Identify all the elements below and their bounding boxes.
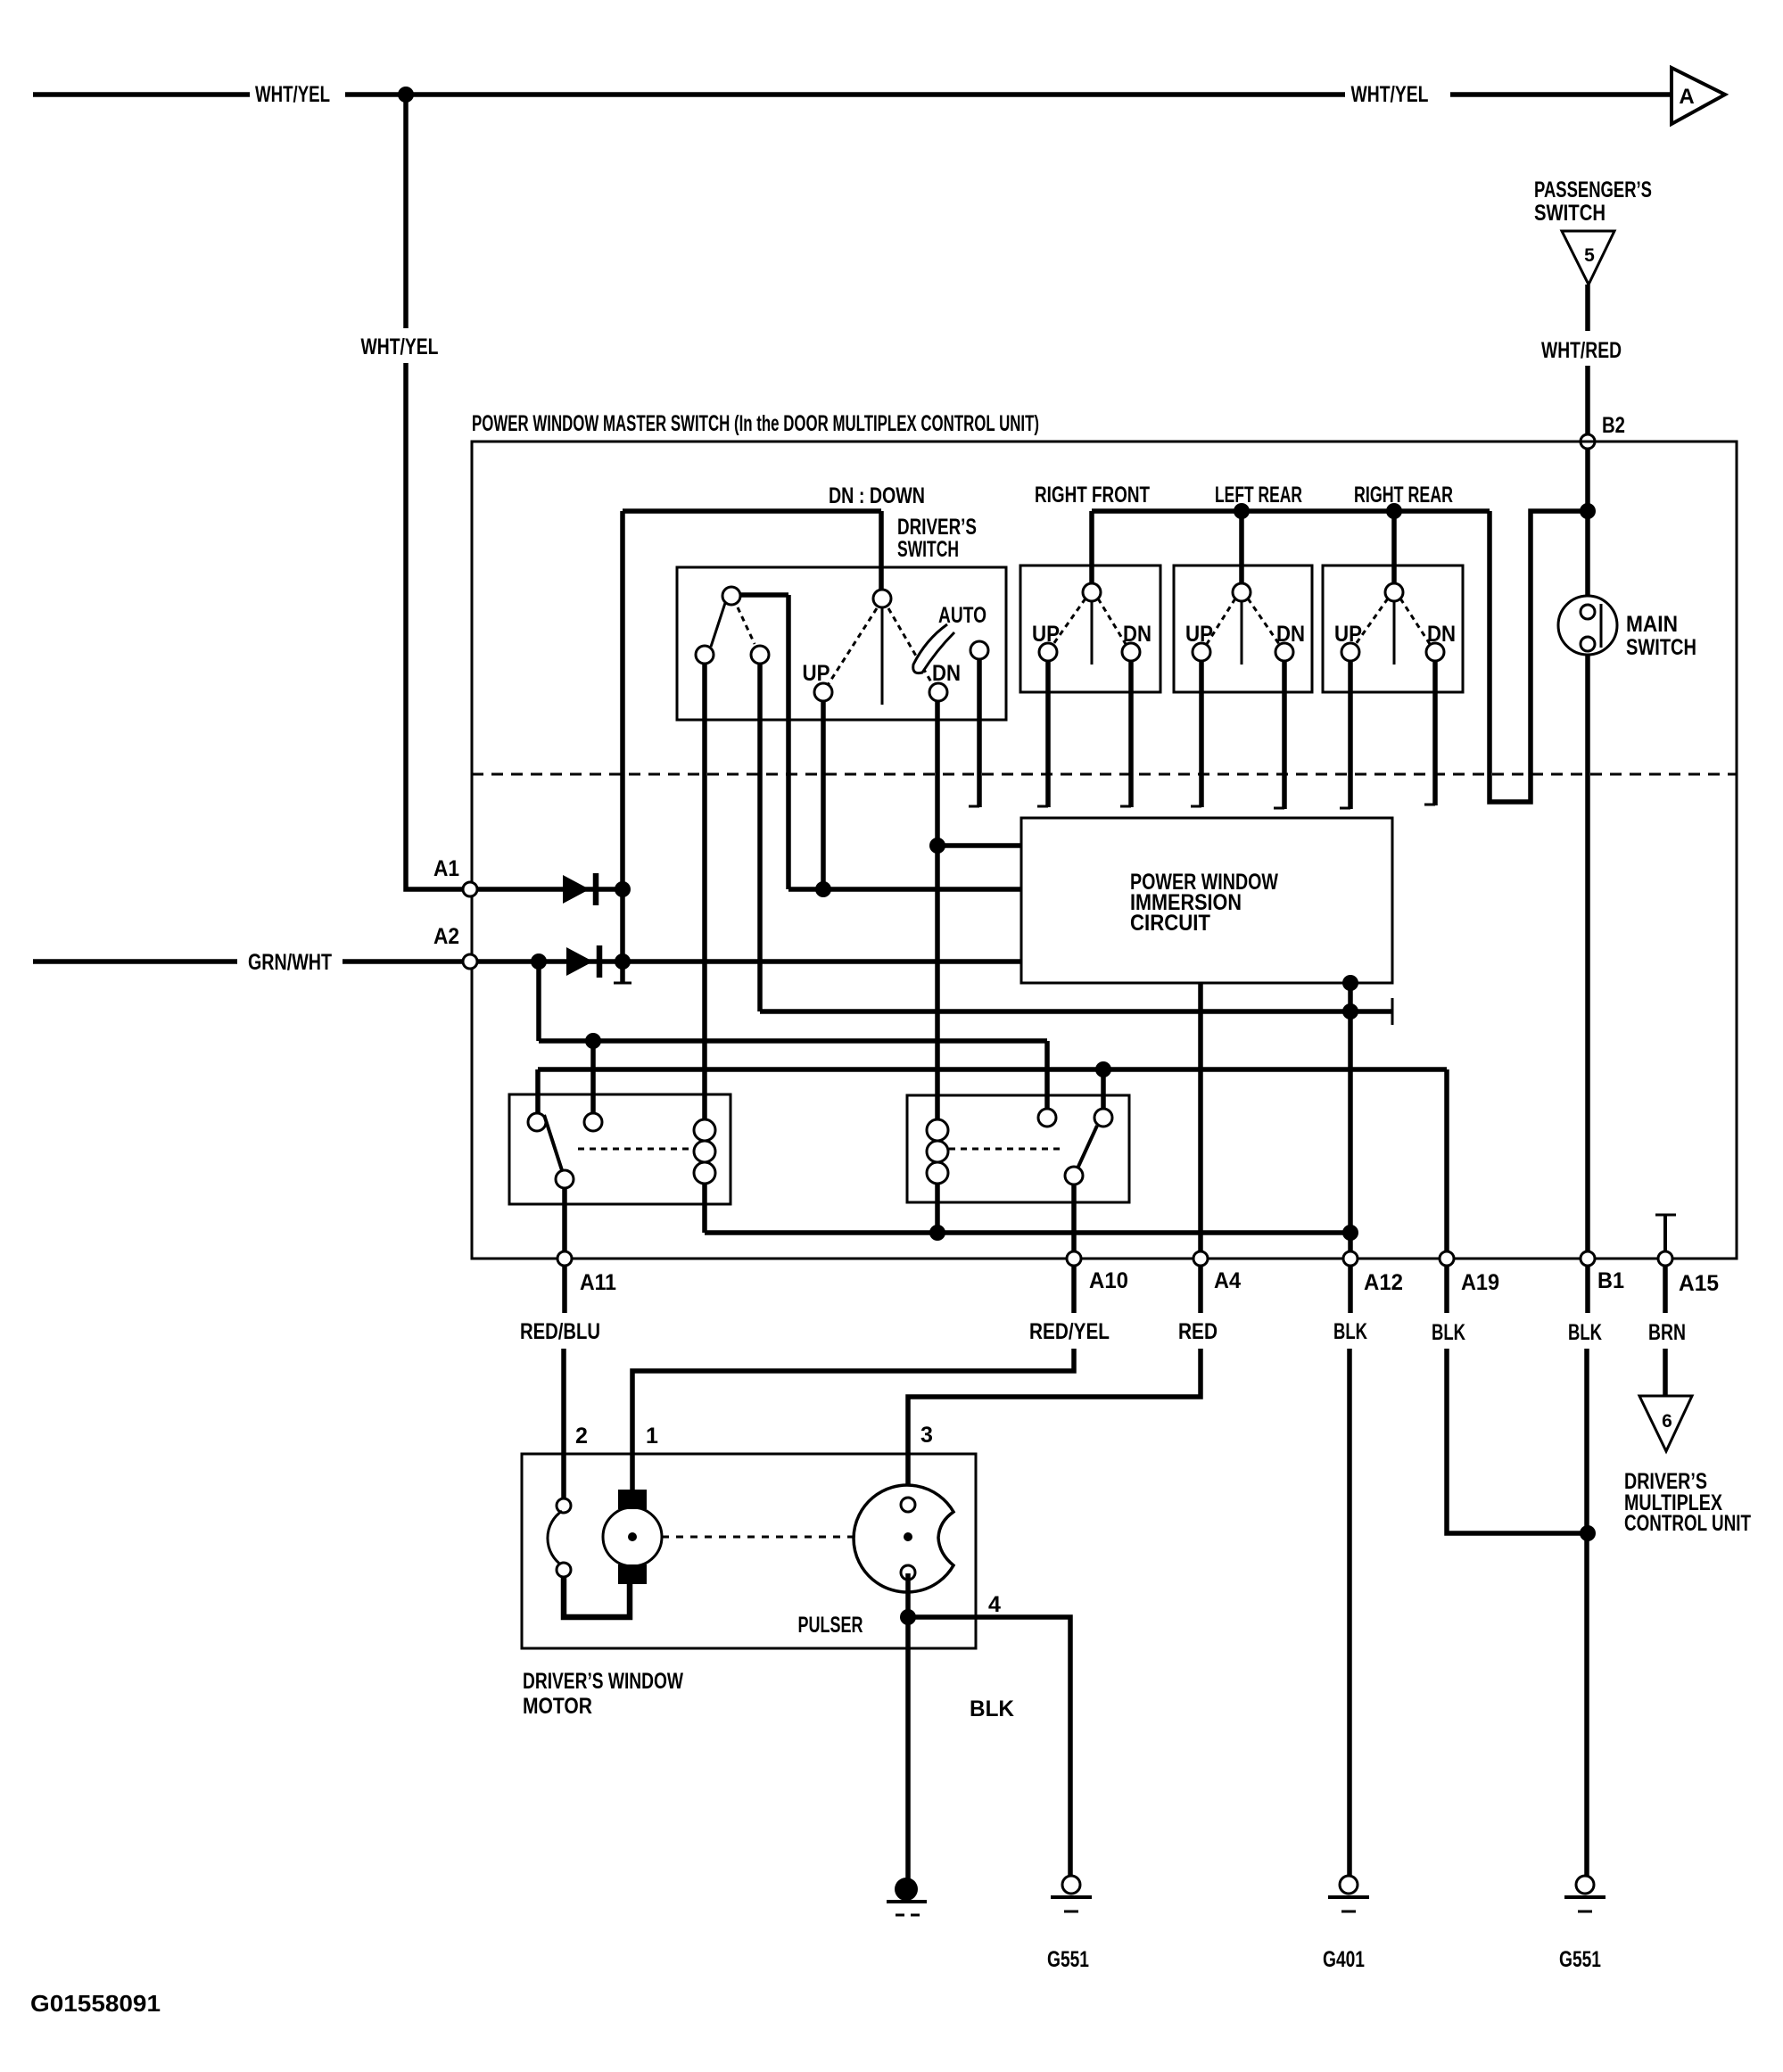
connector A15 xyxy=(1658,1251,1672,1266)
contact UP right rear xyxy=(1341,643,1359,661)
wire A4 RED tail xyxy=(908,1267,1201,1502)
wire B2 to main switch xyxy=(1585,449,1590,597)
wire bus dip below boundary xyxy=(1490,511,1588,802)
svg-text:1: 1 xyxy=(646,1424,658,1449)
svg-text:3: 3 xyxy=(920,1423,933,1448)
junction A12 top xyxy=(1342,975,1358,991)
wire A15 BRN tail xyxy=(1663,1267,1668,1396)
svg-text:UP: UP xyxy=(803,661,830,686)
pulser bottom terminal xyxy=(901,1565,915,1580)
connector A1 xyxy=(463,882,477,896)
label DRIVER'S MULTIPLEX CONTROL UNIT xyxy=(1624,1469,1751,1536)
box driver's switch xyxy=(677,567,1006,720)
wire WHT/YEL vertical drop xyxy=(406,95,463,889)
wire right front feed drop xyxy=(1089,511,1094,585)
wire UP right front drop xyxy=(1045,661,1051,807)
contact DN right front xyxy=(1122,643,1140,661)
svg-text:DN : DOWN: DN : DOWN xyxy=(829,483,925,508)
svg-text:MAIN: MAIN xyxy=(1626,612,1678,637)
svg-text:WHT/YEL: WHT/YEL xyxy=(255,82,330,107)
svg-text:PULSER: PULSER xyxy=(798,1613,863,1638)
dashed left rear throws xyxy=(1207,598,1279,644)
pulser center dot xyxy=(904,1532,912,1541)
svg-text:CIRCUIT: CIRCUIT xyxy=(1130,911,1210,936)
contact DN right rear xyxy=(1426,643,1444,661)
diode D1 xyxy=(563,873,596,905)
main switch top terminal xyxy=(1581,605,1595,619)
relay2 NO contact xyxy=(1094,1109,1112,1127)
dashed K1-K3 throw xyxy=(738,607,755,644)
relay1 dashed link xyxy=(578,1148,689,1151)
svg-text:BRN: BRN xyxy=(1648,1320,1686,1345)
ground G551 xyxy=(1051,1876,1092,1911)
dashed right front throws xyxy=(1053,598,1126,644)
svg-text:G551: G551 xyxy=(1559,1947,1601,1972)
box relay 2 xyxy=(907,1095,1129,1202)
hook UP left rear xyxy=(1191,805,1201,808)
ground G401 xyxy=(1328,1876,1369,1911)
svg-text:SWITCH: SWITCH xyxy=(897,537,959,562)
svg-text:2: 2 xyxy=(575,1424,588,1449)
svg-text:RED/YEL: RED/YEL xyxy=(1029,1319,1110,1344)
svg-text:BLK: BLK xyxy=(1333,1319,1367,1344)
wire relay1 pole drop xyxy=(535,1069,541,1113)
svg-text:SWITCH: SWITCH xyxy=(1626,635,1696,660)
connector A19 xyxy=(1440,1251,1454,1266)
wire right rear feed drop xyxy=(1391,511,1397,585)
wire DN:DOWN bus horizontal xyxy=(623,508,881,514)
main switch bottom terminal xyxy=(1581,637,1595,651)
wire K3 row to A12 column xyxy=(760,1009,1392,1014)
wire UP right rear drop xyxy=(1348,661,1353,809)
wire UP drop xyxy=(821,701,826,889)
wire pivot drop xyxy=(879,511,884,591)
wire immersion out A12 xyxy=(1348,983,1353,1251)
main switch blade xyxy=(1600,604,1603,648)
wire row to relay2 NC xyxy=(539,1038,1047,1044)
contact right front common xyxy=(1083,583,1101,601)
contact K4 driver xyxy=(970,641,988,659)
wire DN bus vertical xyxy=(620,511,625,984)
wire relay1 coil bottom xyxy=(702,1184,707,1233)
wire A2 diode row xyxy=(478,959,1021,964)
svg-text:WHT/YEL: WHT/YEL xyxy=(361,334,439,359)
svg-text:DRIVER’S: DRIVER’S xyxy=(897,515,977,540)
contact K1 driver lock xyxy=(722,587,740,605)
label DRIVER'S SWITCH xyxy=(897,515,977,562)
svg-text:G401: G401 xyxy=(1323,1947,1365,1972)
contact left rear common xyxy=(1233,583,1251,601)
hook K4 end xyxy=(969,805,979,808)
svg-text:G551: G551 xyxy=(1047,1947,1089,1972)
relay2 dashed link xyxy=(949,1148,1060,1151)
svg-text:POWER WINDOW MASTER SWITCH (In: POWER WINDOW MASTER SWITCH (In the DOOR … xyxy=(472,411,1039,436)
svg-text:RED/BLU: RED/BLU xyxy=(520,1319,600,1344)
diode D2 xyxy=(566,945,599,978)
wire A1 diode row xyxy=(478,887,623,892)
motor top brush xyxy=(618,1490,647,1509)
pivot stem xyxy=(881,607,884,705)
box relay 1 xyxy=(509,1094,731,1204)
wire pulser ground xyxy=(905,1573,911,1880)
junction bus to B2 xyxy=(1580,503,1596,519)
contact K2 xyxy=(696,646,714,664)
contact K3 xyxy=(751,646,769,664)
motor breaker top terminal xyxy=(557,1498,571,1513)
connector B2 xyxy=(1581,434,1595,449)
label DRIVER'S WINDOW MOTOR xyxy=(523,1669,683,1719)
svg-text:LEFT REAR: LEFT REAR xyxy=(1215,483,1302,508)
svg-text:B2: B2 xyxy=(1602,413,1625,438)
wire WHT/RED xyxy=(1585,285,1590,433)
relay1 common contact xyxy=(556,1170,574,1188)
hook UP right rear xyxy=(1340,807,1350,810)
relay1 lever xyxy=(544,1115,562,1170)
svg-text:PASSENGER’S: PASSENGER’S xyxy=(1534,177,1652,202)
contact right rear common xyxy=(1385,583,1403,601)
box driver's window motor xyxy=(522,1454,976,1648)
wire DN row to immersion box xyxy=(937,843,1021,848)
wire GRN/WHT feed xyxy=(33,959,462,964)
svg-text:A: A xyxy=(1679,85,1694,109)
motor breaker bottom terminal xyxy=(557,1563,571,1577)
svg-text:WHT/RED: WHT/RED xyxy=(1541,338,1622,363)
relay2 lever xyxy=(1077,1126,1097,1168)
switch box right front xyxy=(1020,565,1160,692)
contact UP right front xyxy=(1039,643,1057,661)
wire K3 drop xyxy=(757,664,763,1011)
wire A2 branch down xyxy=(536,962,541,1041)
junction relay2 coil bottom xyxy=(929,1225,945,1241)
wire left rear feed drop xyxy=(1239,511,1244,585)
motor center dot xyxy=(628,1532,637,1541)
wire K4 drop dead end xyxy=(977,659,982,807)
label POWER WINDOW IMMERSION CIRCUIT xyxy=(1130,870,1278,936)
pivot driver switch xyxy=(873,590,891,607)
hook DN right rear xyxy=(1424,804,1435,806)
connector arrow A xyxy=(1672,68,1725,124)
svg-text:DRIVER’S WINDOW: DRIVER’S WINDOW xyxy=(523,1669,683,1694)
label PASSENGER'S SWITCH xyxy=(1534,177,1652,226)
junction UP row xyxy=(815,881,831,897)
svg-text:4: 4 xyxy=(988,1592,1001,1617)
motor breaker arc xyxy=(548,1511,562,1565)
svg-text:AUTO: AUTO xyxy=(938,603,986,628)
svg-text:GRN/WHT: GRN/WHT xyxy=(248,950,332,975)
wire switch bus xyxy=(1092,508,1490,514)
wire relay1 common to A11 xyxy=(562,1188,567,1251)
svg-text:RED: RED xyxy=(1178,1319,1218,1344)
pulser disc xyxy=(854,1485,953,1592)
connector A2 xyxy=(463,954,477,969)
wire coil ground row xyxy=(705,1230,1350,1235)
wire B1 BLK tail xyxy=(1587,1267,1588,1878)
junction pulser ground branch xyxy=(900,1609,916,1625)
svg-text:A15: A15 xyxy=(1679,1271,1719,1296)
stub end right of immersion box xyxy=(1391,998,1394,1025)
wire relay2 NO drop xyxy=(1101,1069,1106,1110)
contact DN left rear xyxy=(1275,643,1293,661)
stem right front xyxy=(1091,601,1094,665)
svg-text:B1: B1 xyxy=(1597,1268,1624,1293)
svg-text:A12: A12 xyxy=(1364,1270,1403,1295)
svg-text:CONTROL UNIT: CONTROL UNIT xyxy=(1624,1511,1751,1536)
box POWER WINDOW MASTER SWITCH xyxy=(472,442,1737,1259)
dashed motor shaft xyxy=(662,1536,888,1539)
relay1 coil xyxy=(694,1119,715,1184)
ground solid (motor) xyxy=(887,1878,927,1915)
wire relay2 NC drop xyxy=(1044,1041,1050,1110)
wire DN right rear drop xyxy=(1432,661,1438,805)
svg-text:BLK: BLK xyxy=(970,1696,1014,1721)
wire relay1 NC drop xyxy=(590,1041,596,1113)
wire relay2 common to A10 xyxy=(1071,1185,1077,1251)
svg-text:6: 6 xyxy=(1662,1411,1672,1432)
junction WHT/YEL tap xyxy=(398,87,414,103)
switch box right rear xyxy=(1323,565,1463,692)
junction A19 B1 xyxy=(1580,1525,1596,1541)
svg-text:A10: A10 xyxy=(1089,1268,1128,1293)
relay2 coil xyxy=(927,1119,948,1184)
svg-text:A11: A11 xyxy=(580,1270,616,1295)
junction A12 coil row xyxy=(1342,1225,1358,1241)
wire K1 to drop xyxy=(740,592,788,598)
junction A2 branch xyxy=(531,953,547,970)
wire breaker to motor xyxy=(564,1577,630,1617)
junction relay2 NO xyxy=(1095,1061,1111,1077)
svg-text:G01558091: G01558091 xyxy=(30,1990,161,2017)
relay2 NC contact xyxy=(1038,1109,1056,1127)
contact UP left rear xyxy=(1193,643,1210,661)
wire A19 drop xyxy=(1444,1069,1449,1251)
wire K2 drop xyxy=(702,664,707,1120)
hook DN left rear xyxy=(1274,807,1284,810)
junction A12 K3 row xyxy=(1342,1003,1358,1019)
lever driver lock switch xyxy=(711,603,725,647)
motor bottom brush xyxy=(618,1564,647,1584)
wire immersion out A4 xyxy=(1198,983,1203,1251)
main switch circle xyxy=(1558,596,1617,655)
junction bus right rear xyxy=(1386,503,1402,519)
wire A19 BLK tail xyxy=(1447,1267,1588,1533)
boundary dashed line xyxy=(472,773,1737,776)
wire DN left rear drop xyxy=(1282,661,1287,809)
wire DN drop to relay2 coil xyxy=(935,701,940,1120)
svg-text:BLK: BLK xyxy=(1432,1320,1465,1345)
junction row to relay1 NC xyxy=(585,1033,601,1049)
connector triangle 5 xyxy=(1562,231,1614,285)
contact DN driver xyxy=(929,683,947,701)
stub end below A2 row xyxy=(614,982,631,985)
wire K1 drop vertical xyxy=(786,595,791,889)
wire DN right front drop xyxy=(1128,661,1134,807)
junction bus left rear xyxy=(1234,503,1250,519)
connector A4 xyxy=(1193,1251,1208,1266)
pulser top terminal xyxy=(901,1498,915,1512)
svg-text:MOTOR: MOTOR xyxy=(523,1694,592,1719)
connector triangle 6 xyxy=(1639,1396,1692,1451)
box power window immersion circuit xyxy=(1021,818,1392,983)
connector A12 xyxy=(1343,1251,1358,1266)
ground G551 xyxy=(1564,1876,1606,1911)
wire pin4 branch xyxy=(908,1617,1070,1878)
label MAIN SWITCH xyxy=(1626,612,1696,660)
svg-text:WHT/YEL: WHT/YEL xyxy=(1351,82,1429,107)
relay1 NC contact xyxy=(584,1113,602,1131)
wire A11 RED/BLU tail xyxy=(564,1267,565,1498)
connector A11 xyxy=(557,1251,572,1266)
dashed right rear throws xyxy=(1356,598,1430,644)
svg-text:A4: A4 xyxy=(1214,1268,1241,1293)
wire K1/UP row to immersion box xyxy=(788,887,1021,892)
motor armature circle xyxy=(603,1507,662,1566)
connector B1 xyxy=(1581,1251,1595,1266)
relay2 common contact xyxy=(1065,1167,1083,1185)
hook UP right front xyxy=(1037,805,1048,808)
wire A12 BLK tail xyxy=(1350,1267,1350,1878)
switch box left rear xyxy=(1174,565,1312,692)
dashed pivot to DN xyxy=(888,608,933,685)
junction diode D2 out xyxy=(615,953,631,970)
hook DN right front xyxy=(1120,805,1131,808)
svg-text:A1: A1 xyxy=(433,856,459,881)
svg-text:SWITCH: SWITCH xyxy=(1534,201,1606,226)
svg-text:A2: A2 xyxy=(433,924,459,949)
stem left rear xyxy=(1241,601,1243,665)
junction diode D1 out xyxy=(615,881,631,897)
wire relay2 coil bottom xyxy=(935,1184,940,1233)
wire UP left rear drop xyxy=(1199,661,1204,807)
wire ground row xyxy=(538,1067,1447,1072)
wire WHT/YEL top horizontal xyxy=(33,92,1670,97)
contact UP driver xyxy=(814,683,832,701)
wire A10 RED/YEL tail xyxy=(632,1267,1074,1491)
svg-text:5: 5 xyxy=(1584,245,1595,266)
stem right rear xyxy=(1393,601,1396,665)
tick A15 stub xyxy=(1655,1214,1676,1217)
relay1 pole contact xyxy=(528,1113,546,1131)
dashed pivot to UP xyxy=(828,608,877,685)
stub A15 internal xyxy=(1663,1215,1667,1251)
junction DN to immersion xyxy=(929,838,945,854)
wire main switch to B1 xyxy=(1585,655,1590,1251)
svg-text:A19: A19 xyxy=(1461,1270,1499,1295)
AUTO arc contact xyxy=(913,624,954,673)
svg-text:BLK: BLK xyxy=(1568,1320,1602,1345)
connector A10 xyxy=(1067,1251,1081,1266)
svg-text:RIGHT REAR: RIGHT REAR xyxy=(1354,483,1453,508)
svg-text:RIGHT FRONT: RIGHT FRONT xyxy=(1035,483,1150,508)
